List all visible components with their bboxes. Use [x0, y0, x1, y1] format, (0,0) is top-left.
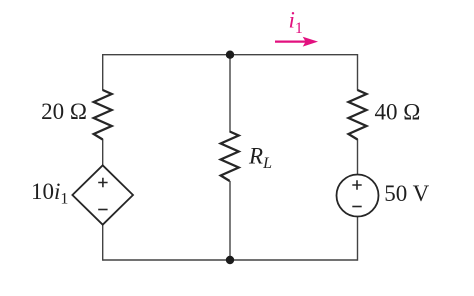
svg-text:i1: i1 [289, 8, 303, 38]
voltage source V1 circle [337, 175, 379, 217]
wire bottom: middle node to right corner [230, 259, 358, 261]
current arrow i1 [275, 38, 316, 46]
wire left branch upper (top wire to resistor R=20) [102, 54, 104, 91]
plus sign of dependent source [98, 178, 107, 187]
wire right branch upper (top wire to resistor 40) [357, 54, 359, 91]
wire middle branch lower (RL to bottom node) [229, 181, 231, 260]
wire top: middle node to right corner [230, 54, 358, 56]
minus sign of voltage source [352, 206, 361, 208]
wire top: left corner to middle node [103, 54, 230, 56]
wire bottom: left corner to middle node [103, 259, 230, 261]
svg-text:20 Ω: 20 Ω [41, 99, 87, 124]
resistor RL zigzag [221, 132, 239, 182]
wire right branch lower (voltage source to bottom wire) [357, 217, 359, 261]
svg-text:40 Ω: 40 Ω [375, 100, 421, 125]
resistor 40 ohm zigzag [349, 90, 367, 140]
wire middle branch upper (top node to RL) [229, 55, 231, 132]
plus sign of voltage source [352, 180, 361, 189]
svg-text:50 V: 50 V [384, 181, 429, 206]
minus sign of dependent source [98, 209, 107, 211]
wire left branch middle (resistor to dependent source) [102, 139, 104, 166]
resistor 20 ohm zigzag [94, 90, 112, 140]
wire left branch lower (dependent source to bottom wire) [102, 224, 104, 261]
svg-text:RL: RL [248, 144, 272, 173]
wire right branch middle (resistor to voltage source) [357, 139, 359, 175]
svg-text:10i1: 10i1 [31, 179, 68, 208]
dependent source U1 diamond [72, 165, 133, 224]
node top junction dot [226, 51, 234, 59]
node bottom junction dot [226, 256, 234, 264]
